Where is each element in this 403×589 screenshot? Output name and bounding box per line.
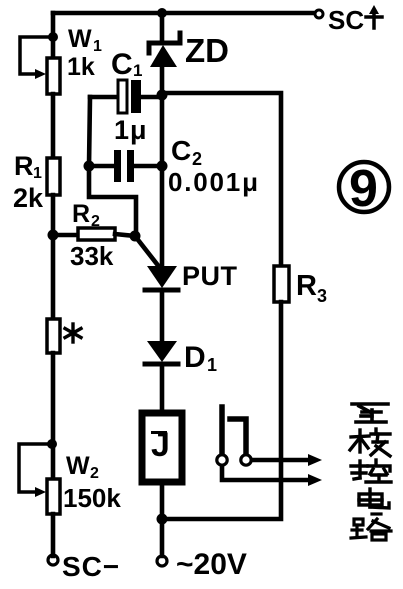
svg-text:2k: 2k — [13, 183, 44, 213]
label C2 — [168, 135, 260, 197]
node W1 wiper junction — [48, 32, 58, 42]
label C1 — [111, 48, 148, 145]
node W2 wiper junction — [47, 439, 57, 449]
svg-text:3: 3 — [317, 286, 327, 306]
svg-text:0.001μ: 0.001μ — [168, 167, 260, 197]
svg-text:150k: 150k — [63, 483, 121, 513]
label W1 — [67, 25, 102, 81]
svg-text:1: 1 — [207, 355, 217, 375]
svg-text:2: 2 — [192, 149, 202, 169]
node below ZD — [157, 90, 168, 101]
label kong (control) — [351, 460, 391, 482]
label SC+ arrow glyph — [366, 5, 382, 28]
wire R3 branch bottom — [162, 302, 281, 519]
label R3 — [296, 270, 327, 306]
wire R2 right — [115, 234, 135, 236]
label lu (circuit) — [351, 514, 391, 540]
potentiometer W1 — [20, 37, 60, 94]
wire J bottom — [160, 482, 165, 556]
zener ZD — [149, 33, 180, 95]
label D1 — [184, 341, 217, 375]
label R2 — [70, 200, 114, 271]
relay coil J — [142, 413, 182, 482]
PUT U1 — [145, 266, 178, 341]
svg-text:R: R — [72, 200, 90, 228]
node gate junction — [130, 231, 141, 242]
capacitor C1 — [90, 80, 162, 113]
label SC- — [62, 551, 120, 582]
svg-text:D: D — [184, 341, 206, 374]
label PUT — [182, 261, 238, 291]
capacitor C2 — [89, 150, 162, 182]
svg-text:R: R — [296, 270, 317, 302]
potentiometer W2 — [19, 444, 60, 514]
wire ZD top — [160, 13, 165, 42]
wire left vertical R1-star — [51, 195, 56, 319]
label dian (electric) — [359, 489, 389, 508]
svg-text:PUT: PUT — [182, 261, 238, 291]
svg-text:W: W — [68, 25, 92, 53]
wire C2 left to R2 junction — [89, 166, 136, 236]
wire R3 branch top — [162, 93, 281, 266]
label J — [151, 426, 170, 464]
node C2 right — [157, 161, 168, 172]
wire C1 left down to C2 — [89, 97, 90, 166]
resistor star — [47, 319, 60, 353]
svg-text:W: W — [66, 452, 90, 480]
wire left vertical W1-R1 — [51, 94, 56, 158]
wire left vertical star-W2 — [51, 353, 56, 479]
label R1 — [13, 151, 44, 213]
wire left vertical top — [51, 13, 56, 58]
svg-text:R: R — [14, 151, 34, 181]
wire gate diagonal — [135, 236, 160, 268]
label bei (by) — [350, 429, 390, 456]
label 20V — [176, 548, 247, 581]
svg-text:~20V: ~20V — [176, 548, 247, 581]
svg-text:1: 1 — [133, 61, 142, 80]
svg-text:C: C — [111, 48, 133, 81]
terminal SC+ — [315, 10, 323, 18]
node bottom junction — [157, 514, 168, 525]
wire top horizontal — [53, 11, 314, 16]
node C2 left — [84, 161, 95, 172]
wire arrow upper — [252, 454, 322, 466]
wire arrow lower — [222, 466, 322, 486]
svg-text:1μ: 1μ — [114, 115, 148, 145]
svg-text:9: 9 — [349, 160, 378, 218]
label zhi (to) — [352, 404, 388, 422]
terminal SC- — [48, 555, 58, 565]
svg-text:SC−: SC− — [62, 551, 120, 582]
resistor R1 — [47, 158, 60, 195]
figure number 9 — [339, 160, 389, 218]
wire left vertical W2-terminal — [51, 514, 56, 556]
svg-text:SC: SC — [328, 5, 364, 35]
label W2 — [63, 452, 121, 513]
svg-text:33k: 33k — [70, 241, 114, 271]
resistor R3 — [274, 266, 289, 302]
label star — [65, 324, 81, 342]
svg-text:ZD: ZD — [185, 32, 229, 69]
resistor R2 — [78, 228, 115, 240]
wire R2 left — [53, 233, 78, 238]
label SC+ — [328, 5, 364, 35]
node top junction — [157, 8, 167, 18]
svg-text:1: 1 — [33, 165, 42, 182]
terminal 20V — [157, 556, 167, 566]
node R2 junction — [48, 230, 59, 241]
wire main vertical to PUT — [160, 95, 165, 266]
svg-text:2: 2 — [91, 213, 100, 230]
svg-text:2: 2 — [90, 465, 99, 482]
relay contact left — [217, 407, 227, 465]
diode D1 — [145, 341, 178, 410]
relay contact right — [230, 419, 251, 465]
label ZD — [185, 32, 229, 69]
svg-text:1k: 1k — [67, 53, 95, 81]
svg-text:C: C — [171, 135, 191, 166]
